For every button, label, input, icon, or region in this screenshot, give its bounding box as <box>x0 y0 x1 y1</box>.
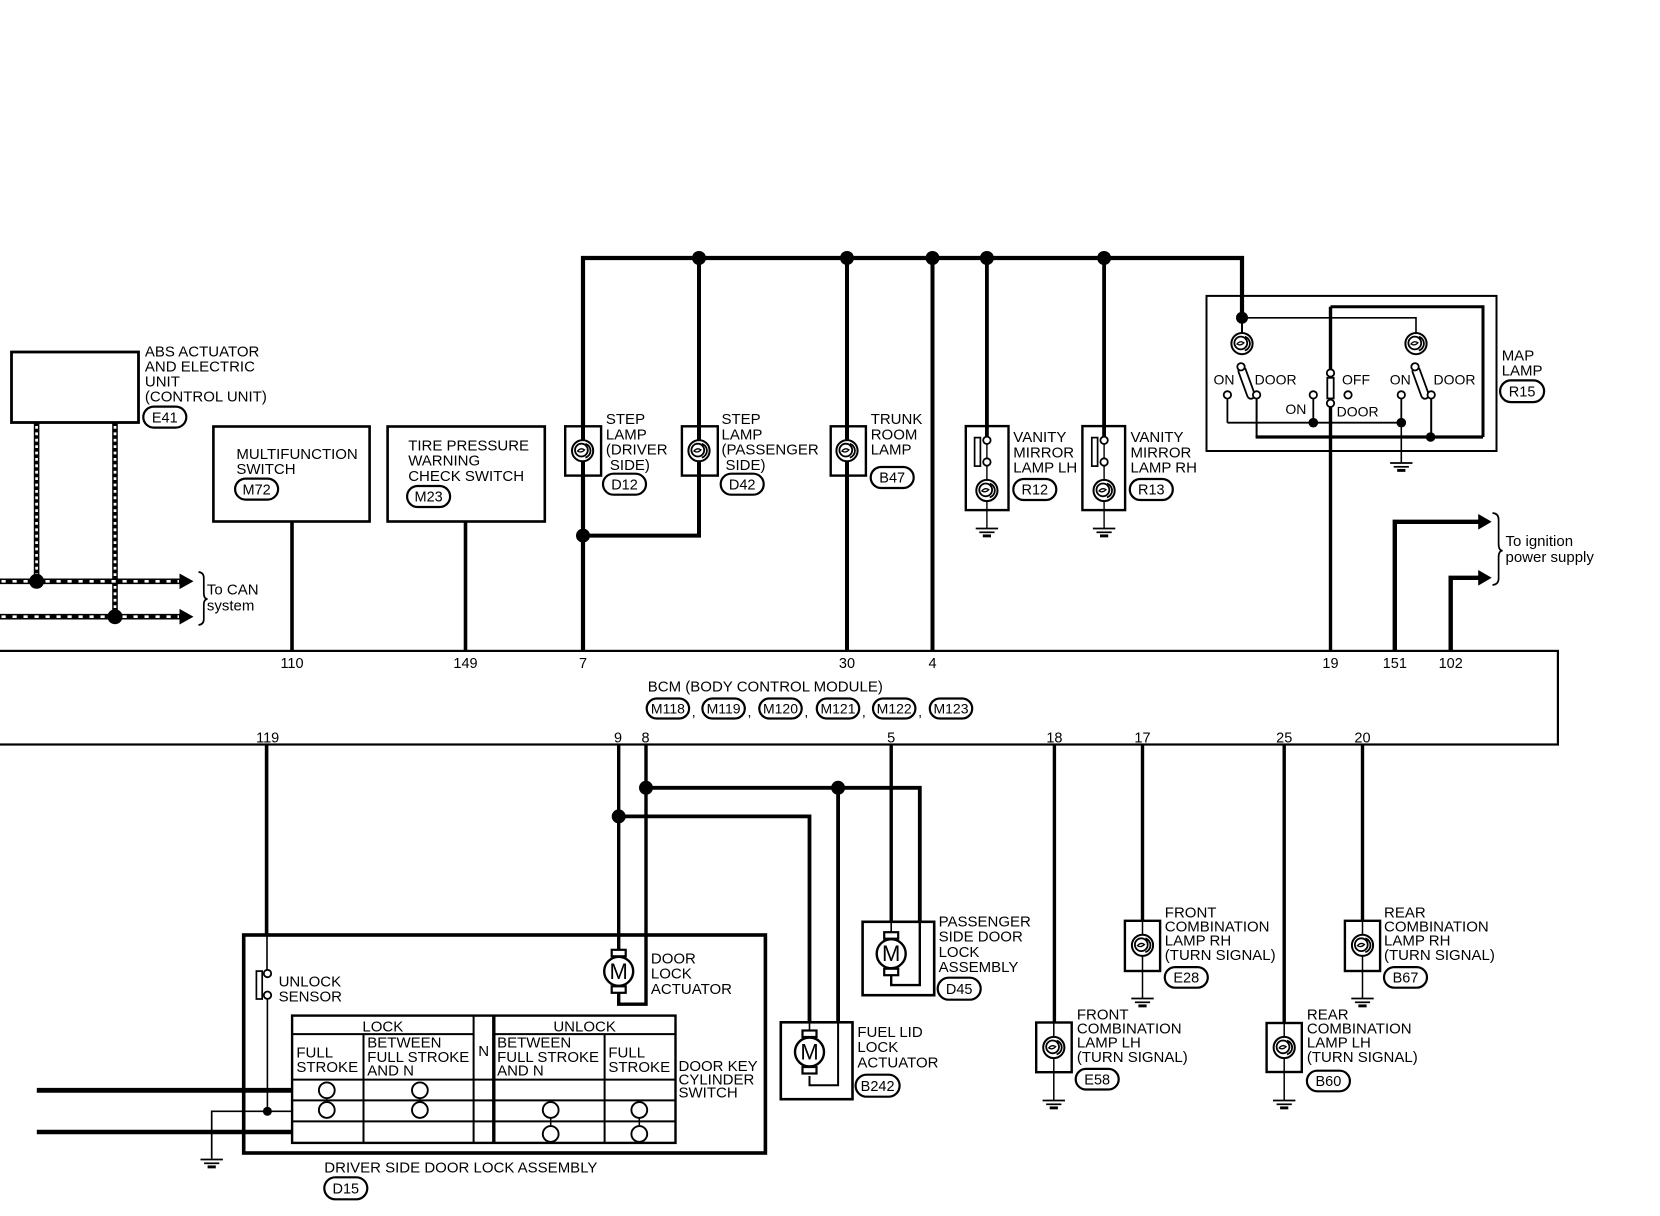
label To CAN system <box>207 582 259 615</box>
connector R13 <box>1130 479 1173 500</box>
wire D42 branch <box>583 258 699 536</box>
junction bus D42 <box>692 251 706 265</box>
svg-text:,: , <box>748 704 752 720</box>
wire CAN-H horizontal dashed to arrow <box>0 609 194 625</box>
lamp B47 <box>836 440 857 461</box>
junction pin 9 branch <box>612 809 626 823</box>
svg-text:SENSOR: SENSOR <box>279 989 343 1006</box>
label MAP LAMP <box>1502 347 1543 379</box>
label DOOR KEY CYLINDER SWITCH <box>679 1058 758 1102</box>
svg-text:151: 151 <box>1383 656 1407 672</box>
svg-text:110: 110 <box>280 656 303 672</box>
map lamp switch wire to pin 19 <box>1329 307 1332 651</box>
wire pin5 inside D45 <box>890 922 892 934</box>
door key cylinder switch table <box>292 1016 675 1143</box>
wire pin 18 to E58 <box>1053 745 1056 1024</box>
label FRONT COMBINATION LAMP RH (TURN SIGNAL) <box>1165 904 1276 964</box>
step lamp driver side box <box>565 426 601 475</box>
wire CAN-L horizontal dashed to arrow <box>0 574 194 590</box>
svg-text:LOCK: LOCK <box>362 1018 403 1035</box>
svg-text:4: 4 <box>928 656 936 672</box>
svg-text:system: system <box>207 598 255 615</box>
svg-text:(TURN SIGNAL): (TURN SIGNAL) <box>1384 947 1495 964</box>
label FULL STROKE col4 <box>608 1045 670 1077</box>
svg-text:M118: M118 <box>651 701 685 717</box>
wire pin 5 to D45 motor <box>890 745 893 934</box>
wire vanity RH branch <box>1102 258 1106 438</box>
wire vanity LH branch <box>985 258 989 438</box>
key switch contacts lock between <box>412 1082 428 1118</box>
label BETWEEN FULL STROKE AND N col2 <box>367 1035 469 1080</box>
svg-text:ASSEMBLY: ASSEMBLY <box>939 959 1019 976</box>
brace To CAN system <box>199 572 208 625</box>
label UNLOCK SENSOR <box>279 973 343 1005</box>
svg-text:20: 20 <box>1354 731 1370 747</box>
svg-text:E28: E28 <box>1173 971 1199 987</box>
svg-text:LAMP LH: LAMP LH <box>1013 460 1077 477</box>
svg-text:102: 102 <box>1439 656 1463 672</box>
label To ignition power supply <box>1506 533 1595 566</box>
svg-text:R15: R15 <box>1509 384 1536 400</box>
contact map right ON <box>1398 391 1405 398</box>
wire pin 9 to door lock actuator <box>617 745 620 951</box>
svg-text:7: 7 <box>579 656 587 672</box>
wire right ON down <box>1400 399 1402 423</box>
ground driver side door lock <box>201 1160 223 1167</box>
svg-text:DRIVER SIDE DOOR LOCK ASSEMBLY: DRIVER SIDE DOOR LOCK ASSEMBLY <box>324 1160 597 1177</box>
label STEP LAMP (DRIVER SIDE) <box>606 411 668 474</box>
connector M120 <box>759 699 808 720</box>
lamp E28 <box>1132 935 1153 956</box>
junction map feed <box>1236 312 1248 324</box>
driver side door lock assembly box D15 <box>244 935 766 1153</box>
wire B60 internal <box>1283 1024 1285 1038</box>
wire fuel lid right branch <box>836 788 840 1085</box>
wire trunk lamp branch to pin 30 <box>845 258 849 651</box>
svg-text:,: , <box>804 704 808 720</box>
svg-text:(TURN SIGNAL): (TURN SIGNAL) <box>1165 947 1276 964</box>
ground E58 <box>1043 1101 1065 1108</box>
svg-text:149: 149 <box>453 656 477 672</box>
ground map lamp <box>1390 463 1412 470</box>
svg-text:M123: M123 <box>933 701 968 717</box>
junction bus pin4 <box>926 251 940 265</box>
svg-text:18: 18 <box>1046 731 1062 747</box>
trunk room lamp box <box>831 426 866 475</box>
ground B60 <box>1273 1101 1295 1108</box>
connector D42 <box>721 474 764 495</box>
wire main bus top <box>583 258 1242 651</box>
svg-text:SIDE): SIDE) <box>610 457 650 474</box>
contact map middle ON <box>1310 391 1317 398</box>
key switch contacts lock full stroke <box>319 1082 335 1118</box>
wire middle ON down <box>1312 399 1314 423</box>
label FUEL LID LOCK ACTUATOR <box>857 1024 938 1071</box>
wire fuel motor bottom loop <box>810 1076 839 1085</box>
brace To ignition power supply <box>1493 513 1503 585</box>
svg-text:M119: M119 <box>707 701 741 717</box>
label FRONT COMBINATION LAMP LH (TURN SIGNAL) <box>1077 1006 1188 1066</box>
svg-text:,: , <box>692 704 696 720</box>
vanity mirror lamp LH box <box>966 426 1009 510</box>
junction CAN-H <box>108 609 123 624</box>
ABS actuator and electric unit box E41 <box>12 352 139 423</box>
svg-text:19: 19 <box>1322 656 1338 672</box>
connector R15 <box>1500 380 1544 402</box>
wire vanity LH to ground <box>986 501 988 529</box>
wire M23 to BCM pin 149 <box>464 522 468 651</box>
connector M23 <box>407 486 450 507</box>
lamp D12 <box>572 440 593 461</box>
wire CAN-H vertical dashed from E41 <box>112 423 118 617</box>
wire vanity LH feed inside <box>985 426 989 437</box>
connector E28 <box>1165 967 1208 988</box>
wire vanity RH internal <box>1103 466 1105 481</box>
ground vanity LH <box>976 529 998 536</box>
wire key switch row A <box>37 1088 292 1093</box>
wire left DOOR down <box>1256 399 1258 437</box>
svg-text:UNLOCK: UNLOCK <box>553 1018 616 1035</box>
svg-text:D12: D12 <box>611 477 638 493</box>
map lamp inner box <box>1331 307 1484 437</box>
junction CAN-L <box>29 574 44 589</box>
svg-text:M122: M122 <box>877 701 912 717</box>
svg-text:R13: R13 <box>1138 483 1165 499</box>
svg-text:R12: R12 <box>1021 483 1048 499</box>
wire D45 motor bottom loop <box>891 976 920 985</box>
wire B67 internal <box>1362 922 1364 936</box>
svg-text:D45: D45 <box>946 982 973 998</box>
wire pin 102 to ignition arrow <box>1451 578 1479 651</box>
svg-text:5: 5 <box>887 731 895 747</box>
door lock actuator motor <box>604 950 633 993</box>
contact map right DOOR <box>1428 391 1435 398</box>
lamp map right <box>1405 333 1426 354</box>
connector M72 <box>235 479 278 500</box>
vanity RH slide switch <box>1092 437 1108 467</box>
wire through D42 box <box>697 426 701 475</box>
svg-text:CHECK SWITCH: CHECK SWITCH <box>408 468 524 485</box>
wire map to ground <box>1400 423 1402 463</box>
wire pin 151 to ignition arrow <box>1395 522 1479 651</box>
front combination lamp LH box E58 <box>1036 1023 1072 1073</box>
label TRUNK ROOM LAMP <box>871 411 923 458</box>
wire key switch row B with ground <box>212 1111 292 1158</box>
svg-text:M72: M72 <box>242 482 270 498</box>
svg-text:ON: ON <box>1390 371 1411 387</box>
wire B67 to ground <box>1362 956 1364 998</box>
junction bus vanity LH <box>980 251 994 265</box>
svg-text:E58: E58 <box>1084 1072 1110 1088</box>
key switch contacts unlock full stroke <box>631 1102 647 1142</box>
wire E28 to ground <box>1142 956 1144 998</box>
wire map lamp feed thin to right lamp <box>1242 318 1416 333</box>
svg-text:E41: E41 <box>152 410 178 426</box>
label VANITY MIRROR LAMP LH <box>1013 429 1077 476</box>
label ABS ACTUATOR AND ELECTRIC UNIT (CONTROL UNIT) <box>145 344 267 406</box>
junction pin 8 branch <box>639 781 653 795</box>
contact map left DOOR <box>1253 391 1260 398</box>
wire vanity LH internal <box>986 466 988 481</box>
junction bus trunk <box>840 251 854 265</box>
svg-text:M121: M121 <box>820 701 855 717</box>
svg-text:DOOR: DOOR <box>1337 404 1379 420</box>
connector E41 <box>143 407 186 428</box>
svg-text:To ignition: To ignition <box>1506 533 1574 550</box>
label PASSENGER SIDE DOOR LOCK ASSEMBLY <box>939 914 1031 977</box>
label TIRE PRESSURE WARNING CHECK SWITCH <box>408 437 529 484</box>
label REAR COMBINATION LAMP LH (TURN SIGNAL) <box>1307 1006 1418 1066</box>
svg-text:STROKE: STROKE <box>296 1059 358 1076</box>
svg-text:LAMP RH: LAMP RH <box>1131 460 1197 477</box>
svg-text:LAMP: LAMP <box>1502 363 1543 380</box>
wire E58 to ground <box>1053 1058 1055 1100</box>
svg-text:To CAN: To CAN <box>207 582 259 599</box>
map left switch lever <box>1237 363 1256 400</box>
svg-text:D42: D42 <box>729 477 756 493</box>
motor fuel lid <box>795 1031 824 1074</box>
connector B67 <box>1384 967 1427 988</box>
wire right DOOR down <box>1430 399 1432 437</box>
svg-text:8: 8 <box>642 731 650 747</box>
junction right DOOR <box>1426 432 1436 442</box>
junction unlock sensor row B <box>263 1107 272 1116</box>
contact map OFF <box>1344 391 1351 398</box>
wire key switch row C <box>37 1130 292 1134</box>
connector M123 <box>930 699 972 719</box>
wire pin 8 branch to D45 <box>646 788 920 985</box>
step lamp passenger side box <box>682 426 718 475</box>
wire map feed inside box <box>1240 296 1244 318</box>
wire fuel feed inside <box>809 1022 811 1034</box>
junction fuel lid branch <box>831 781 845 795</box>
svg-text:25: 25 <box>1276 731 1292 747</box>
wire E28 internal <box>1142 922 1144 936</box>
junction step lamps join <box>576 529 590 543</box>
wire M72 to BCM pin 110 <box>290 522 294 651</box>
connector M118 <box>647 699 696 720</box>
svg-text:ON: ON <box>1285 401 1306 417</box>
connector B242 <box>856 1075 900 1097</box>
connector B60 <box>1307 1071 1350 1092</box>
unlock sensor <box>256 970 271 999</box>
wire through D12 box <box>581 426 585 475</box>
svg-text:B47: B47 <box>879 471 905 487</box>
connector E58 <box>1076 1069 1119 1090</box>
tire pressure warning check switch box M23 <box>388 427 545 522</box>
label REAR COMBINATION LAMP RH (TURN SIGNAL) <box>1384 904 1495 964</box>
fuel lid lock actuator box B242 <box>781 1022 853 1099</box>
label MULTIFUNCTION SWITCH <box>236 446 357 478</box>
wire pin 119 to unlock sensor <box>265 745 269 937</box>
svg-text:power supply: power supply <box>1506 549 1595 566</box>
svg-text:DOOR: DOOR <box>1255 371 1297 387</box>
svg-text:30: 30 <box>839 656 855 672</box>
wire map left lamp feed <box>1241 318 1243 333</box>
label DOOR LOCK ACTUATOR <box>651 951 732 998</box>
ground E28 <box>1131 999 1153 1006</box>
motor D45 <box>877 932 906 975</box>
svg-text:M23: M23 <box>414 490 442 506</box>
connector B47 <box>871 467 914 488</box>
svg-text:119: 119 <box>256 731 279 747</box>
svg-text:N: N <box>478 1043 489 1060</box>
svg-text:(TURN SIGNAL): (TURN SIGNAL) <box>1307 1049 1418 1066</box>
wire unlock sensor feed <box>266 936 268 970</box>
wire ON bus horizontal <box>1227 422 1401 424</box>
label STEP LAMP (PASSENGER SIDE) <box>722 411 819 474</box>
svg-text:BCM (BODY CONTROL MODULE): BCM (BODY CONTROL MODULE) <box>648 679 883 696</box>
label VANITY MIRROR LAMP RH <box>1131 429 1197 476</box>
wire through B47 box <box>845 426 849 475</box>
svg-text:ACTUATOR: ACTUATOR <box>857 1054 938 1071</box>
map middle slide switch <box>1327 369 1334 407</box>
passenger side door lock assembly box D45 <box>863 922 935 995</box>
junction middle ON <box>1309 418 1319 428</box>
svg-text:,: , <box>862 704 866 720</box>
svg-text:SIDE): SIDE) <box>726 457 766 474</box>
svg-text:9: 9 <box>614 731 622 747</box>
svg-text:DOOR: DOOR <box>1434 371 1476 387</box>
wire branch to pin 4 <box>931 258 935 651</box>
label FULL STROKE col1 <box>296 1045 358 1077</box>
wire unlock sensor down <box>266 999 268 1111</box>
svg-text:D15: D15 <box>332 1182 359 1198</box>
lamp R13 <box>1094 480 1115 501</box>
connector M121 <box>817 699 866 720</box>
vanity mirror lamp RH box <box>1082 426 1125 510</box>
rear combination lamp RH box B67 <box>1345 921 1380 971</box>
lamp R12 <box>976 480 997 501</box>
svg-text:STROKE: STROKE <box>608 1059 670 1076</box>
key switch contacts unlock between <box>543 1102 559 1142</box>
connector R12 <box>1013 479 1056 500</box>
connector M119 <box>702 699 751 720</box>
wire vanity RH feed inside <box>1102 426 1106 437</box>
svg-text:(TURN SIGNAL): (TURN SIGNAL) <box>1077 1049 1188 1066</box>
svg-text:B67: B67 <box>1393 971 1419 987</box>
lamp D42 <box>688 440 709 461</box>
svg-text:,: , <box>918 704 922 720</box>
svg-text:AND N: AND N <box>367 1062 414 1079</box>
map right switch lever <box>1411 363 1430 400</box>
vanity LH slide switch <box>975 437 991 467</box>
svg-text:B242: B242 <box>861 1079 895 1095</box>
svg-text:17: 17 <box>1134 731 1150 747</box>
svg-text:OFF: OFF <box>1342 371 1370 387</box>
wire pin 9 branch to fuel lid motor <box>619 816 810 1034</box>
label BETWEEN FULL STROKE AND N col3 <box>497 1035 599 1080</box>
wire B60 to ground <box>1283 1058 1285 1100</box>
wire pin 17 to E28 <box>1141 745 1144 922</box>
wire map lamp door contacts bottom <box>1256 435 1483 438</box>
wire left ON down <box>1226 399 1228 423</box>
svg-text:SWITCH: SWITCH <box>236 461 295 478</box>
svg-text:ACTUATOR: ACTUATOR <box>651 981 732 998</box>
junction right ON <box>1397 418 1407 428</box>
svg-text:LAMP: LAMP <box>871 442 912 459</box>
svg-text:ON: ON <box>1214 371 1235 387</box>
wire fuel loop inside <box>810 1022 839 1085</box>
junction bus vanity RH <box>1097 251 1111 265</box>
wire pin 8 down and motor loop <box>619 745 646 1005</box>
lamp E58 <box>1043 1037 1064 1058</box>
connector D15 <box>324 1177 367 1199</box>
front combination lamp RH box E28 <box>1125 921 1160 971</box>
lamp B67 <box>1352 935 1373 956</box>
BCM body control module box <box>0 651 1558 745</box>
connector D45 <box>938 978 981 1000</box>
wire pin 20 to B67 <box>1361 745 1364 922</box>
rear combination lamp LH box B60 <box>1267 1023 1302 1072</box>
svg-text:M120: M120 <box>763 701 798 717</box>
svg-text:(CONTROL UNIT): (CONTROL UNIT) <box>145 389 267 406</box>
contact map left ON <box>1224 391 1231 398</box>
multifunction switch box M72 <box>213 427 369 522</box>
lamp map left <box>1231 333 1252 354</box>
ground B67 <box>1351 999 1373 1006</box>
lamp B60 <box>1274 1037 1295 1058</box>
svg-text:B60: B60 <box>1315 1074 1341 1090</box>
wire pin 25 to B60 <box>1282 745 1285 1025</box>
svg-text:SWITCH: SWITCH <box>679 1085 738 1102</box>
wire E58 internal <box>1053 1024 1055 1039</box>
map lamp outer box R15 <box>1207 296 1497 451</box>
connector M122 <box>873 699 922 720</box>
svg-text:AND N: AND N <box>497 1062 544 1079</box>
ground vanity RH <box>1093 529 1115 536</box>
connector D12 <box>603 474 646 495</box>
wire vanity RH to ground <box>1103 501 1105 529</box>
wire CAN-L vertical dashed from E41 <box>34 423 40 582</box>
wire D45 loop inside <box>891 922 920 985</box>
